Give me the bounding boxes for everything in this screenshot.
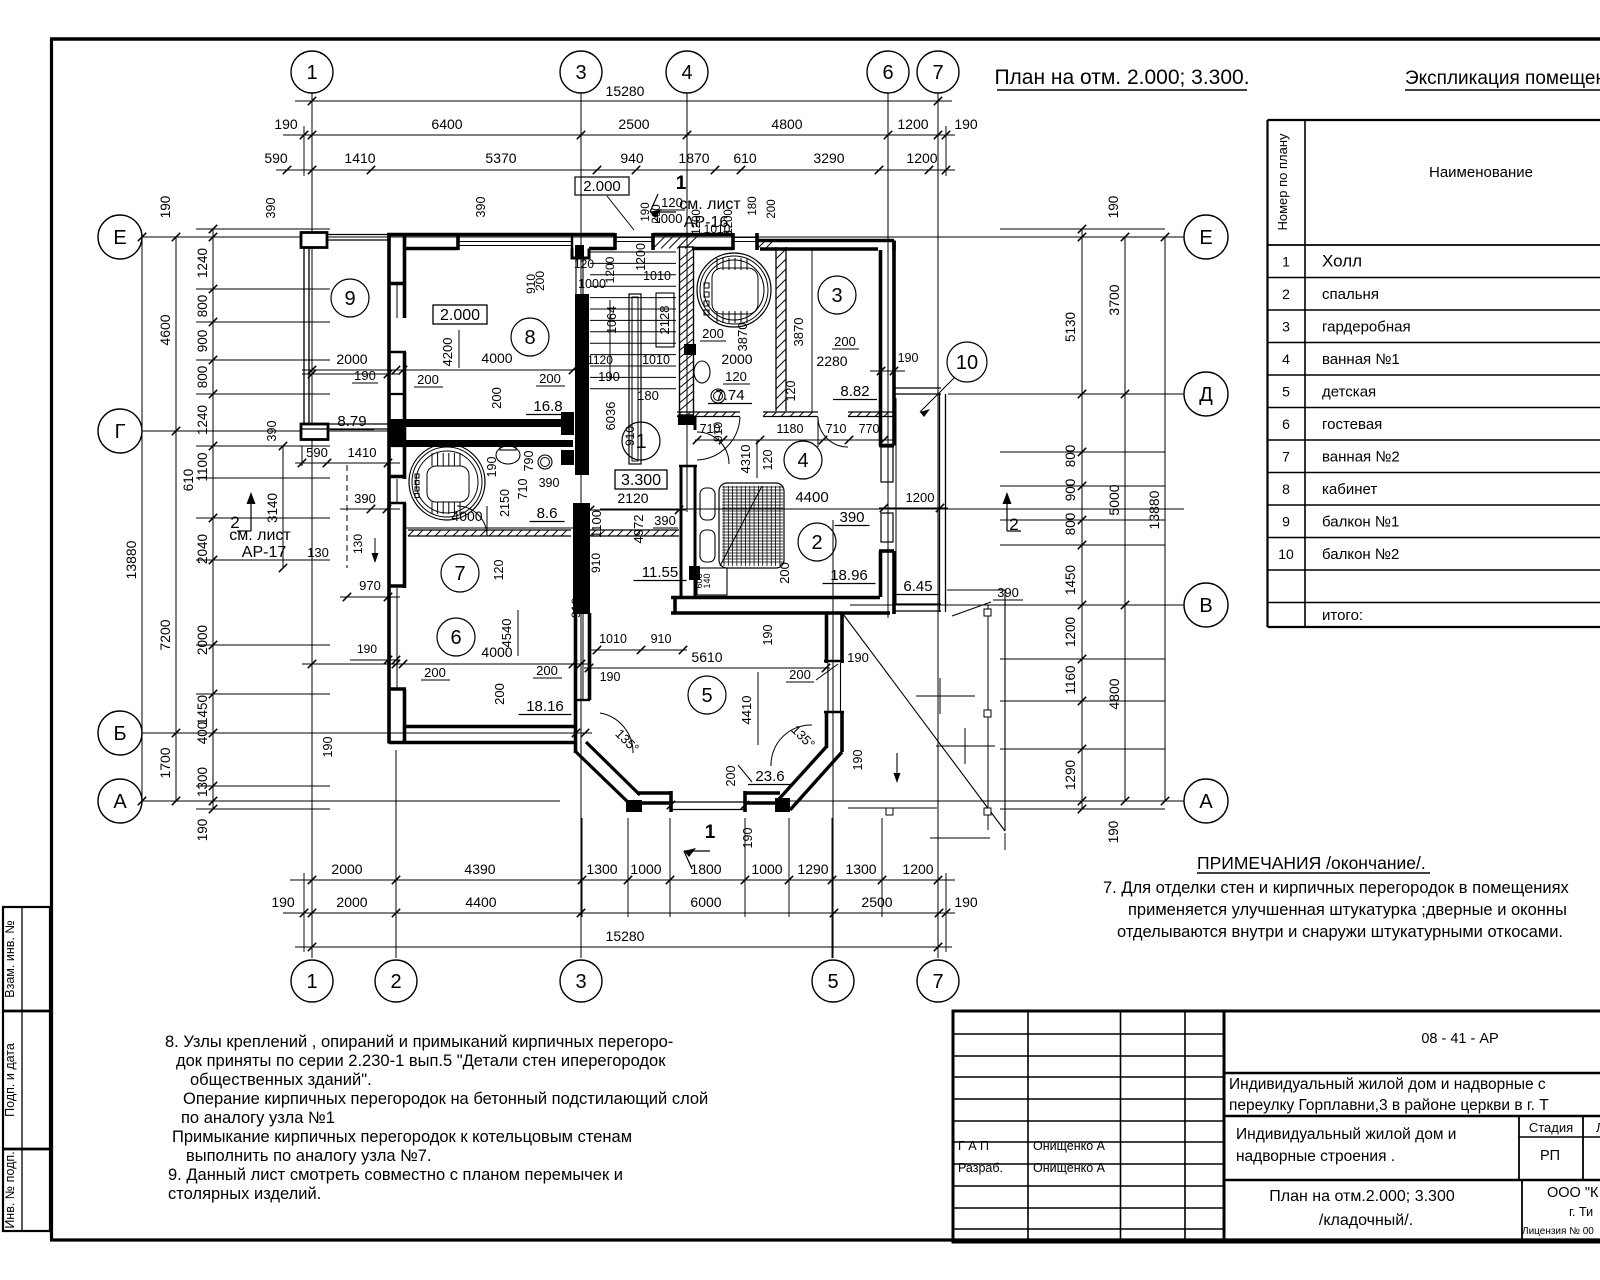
svg-text:РП: РП bbox=[1540, 1148, 1560, 1164]
dimension chain top detailed bbox=[276, 169, 955, 171]
pier blocks left of hall wall bbox=[561, 412, 574, 435]
wall right exterior inner line bbox=[879, 250, 883, 446]
svg-text:4400: 4400 bbox=[465, 894, 496, 910]
wall right exterior outer line bbox=[892, 241, 896, 446]
notes title ПРИМЕЧАНИЯ /окончание/. bbox=[1197, 853, 1430, 873]
window bay bottom bbox=[671, 801, 745, 803]
dimension chain left middle bbox=[175, 237, 177, 801]
svg-text:190: 190 bbox=[898, 351, 919, 365]
svg-text:8.6: 8.6 bbox=[537, 505, 558, 522]
svg-text:18.16: 18.16 bbox=[526, 698, 564, 715]
axis line 4 vertical bbox=[686, 93, 688, 512]
room circle 6 bbox=[437, 618, 475, 656]
dimension chain bottom detailed bbox=[290, 879, 955, 881]
svg-text:Л: Л bbox=[1596, 1120, 1600, 1135]
svg-text:710: 710 bbox=[516, 479, 530, 500]
toilet room 7 bbox=[496, 446, 520, 464]
svg-text:2000: 2000 bbox=[336, 351, 367, 367]
svg-text:15280: 15280 bbox=[606, 83, 645, 99]
svg-text:4000: 4000 bbox=[451, 508, 482, 524]
svg-text:190: 190 bbox=[485, 457, 499, 478]
svg-text:390: 390 bbox=[997, 585, 1019, 600]
svg-text:1100: 1100 bbox=[589, 510, 604, 538]
partition room 4 bottom hatched bbox=[677, 411, 740, 413]
terrace outline bbox=[947, 589, 1005, 591]
svg-text:1010: 1010 bbox=[599, 632, 627, 646]
svg-text:120: 120 bbox=[784, 381, 798, 402]
svg-text:1064: 1064 bbox=[605, 306, 619, 334]
svg-text:1: 1 bbox=[306, 971, 317, 993]
svg-text:Б: Б bbox=[113, 723, 126, 745]
axis line 3 vertical bbox=[580, 93, 582, 958]
svg-text:08 - 41 - АР: 08 - 41 - АР bbox=[1421, 1031, 1498, 1047]
level box 2.000 room 8 bbox=[433, 305, 487, 324]
svg-text:Д: Д bbox=[1199, 384, 1213, 406]
svg-text:18.96: 18.96 bbox=[830, 567, 868, 584]
room circle 4 bbox=[784, 441, 822, 479]
balcony 10 bottom wall bbox=[893, 603, 941, 605]
window top wall bath bbox=[733, 237, 757, 239]
svg-text:190: 190 bbox=[1106, 821, 1121, 844]
svg-text:3: 3 bbox=[575, 971, 586, 993]
svg-text:1300: 1300 bbox=[586, 861, 617, 877]
svg-text:2040: 2040 bbox=[195, 534, 210, 564]
bay extension lines to bottom chain bbox=[581, 818, 583, 917]
svg-text:130: 130 bbox=[351, 534, 365, 554]
svg-text:1300: 1300 bbox=[845, 861, 876, 877]
svg-text:Стадия: Стадия bbox=[1529, 1120, 1573, 1135]
svg-text:16.8: 16.8 bbox=[533, 398, 562, 415]
svg-text:770: 770 bbox=[859, 422, 880, 436]
table rows room list bbox=[1278, 252, 1410, 625]
svg-text:200: 200 bbox=[834, 334, 856, 349]
svg-text:1450: 1450 bbox=[1063, 565, 1078, 595]
round tub room 7 bbox=[409, 444, 485, 520]
svg-text:4410: 4410 bbox=[739, 696, 754, 725]
svg-text:790: 790 bbox=[522, 451, 536, 472]
axis circle Б left bbox=[98, 711, 142, 755]
note 7 text lines bbox=[1103, 879, 1570, 941]
svg-text:120: 120 bbox=[574, 257, 594, 271]
svg-text:Е: Е bbox=[1199, 227, 1212, 249]
svg-text:1450: 1450 bbox=[195, 695, 210, 725]
svg-text:3: 3 bbox=[831, 285, 842, 307]
svg-text:кабинет: кабинет bbox=[1322, 481, 1377, 498]
table title Экспликация помещений bbox=[1405, 68, 1600, 90]
wall bottom room 6 outer line bbox=[389, 741, 576, 745]
axis line 2 vertical bbox=[395, 750, 397, 958]
right extension lines bbox=[1000, 228, 1165, 230]
dimension chain right 13880 bbox=[1164, 237, 1166, 801]
svg-text:5000: 5000 bbox=[1106, 484, 1122, 515]
svg-text:390: 390 bbox=[839, 509, 864, 526]
wall stair right hatched bbox=[680, 247, 694, 415]
axis line 5 vertical bbox=[832, 520, 834, 958]
svg-text:5370: 5370 bbox=[485, 150, 516, 166]
dimension chain right inner bbox=[1081, 229, 1083, 809]
room circle 7 bbox=[441, 554, 479, 592]
svg-text:Холл: Холл bbox=[1322, 252, 1362, 271]
wall bay left corner to room6 bbox=[573, 588, 590, 614]
svg-text:900: 900 bbox=[1063, 479, 1078, 502]
svg-text:7: 7 bbox=[1282, 449, 1290, 465]
dimension row rooms 9-8 horizontal bbox=[302, 369, 589, 371]
svg-text:200: 200 bbox=[539, 371, 561, 386]
dimension 390 row7 bbox=[340, 508, 400, 510]
svg-text:1200: 1200 bbox=[906, 150, 937, 166]
wall bay left bbox=[574, 594, 578, 753]
svg-text:2000: 2000 bbox=[195, 625, 210, 655]
svg-text:1410: 1410 bbox=[344, 150, 375, 166]
svg-text:200: 200 bbox=[424, 665, 446, 680]
axis circle 6 top bbox=[867, 51, 909, 93]
axis circle 5 bottom bbox=[812, 960, 854, 1002]
wall left exterior outer line bbox=[387, 233, 391, 744]
svg-text:13880: 13880 bbox=[123, 540, 139, 579]
svg-text:2128: 2128 bbox=[657, 306, 672, 335]
svg-text:190: 190 bbox=[847, 650, 869, 665]
wall stair cap solid bbox=[678, 415, 694, 425]
balcony 10 right wall bbox=[939, 394, 941, 612]
svg-text:190: 190 bbox=[357, 642, 377, 656]
svg-text:гостевая: гостевая bbox=[1322, 416, 1382, 433]
svg-text:190: 190 bbox=[321, 737, 335, 758]
terrace posts line vertical bbox=[987, 605, 989, 830]
window right wall room 2 upper bbox=[881, 447, 893, 482]
svg-text:4000: 4000 bbox=[481, 350, 512, 366]
room circle 10 with leader bbox=[947, 342, 987, 382]
window sill marks bay bbox=[667, 801, 675, 809]
bed room 2 bbox=[719, 483, 784, 568]
svg-text:200: 200 bbox=[651, 204, 663, 223]
dimension chain right outer bbox=[1124, 237, 1126, 801]
svg-text:ПРИМЕЧАНИЯ /окончание/.: ПРИМЕЧАНИЯ /окончание/. bbox=[1197, 853, 1426, 873]
svg-text:1200: 1200 bbox=[897, 116, 928, 132]
wall right exterior lower corner bbox=[892, 551, 896, 614]
terrace down arrow bbox=[896, 753, 898, 780]
svg-text:7: 7 bbox=[932, 62, 943, 84]
sink room 7 bbox=[538, 455, 552, 469]
level box 3.300 hall bbox=[615, 470, 667, 489]
svg-text:7: 7 bbox=[932, 971, 943, 993]
svg-text:7. Для отделки стен и кирпичны: 7. Для отделки стен и кирпичных перегоро… bbox=[1103, 879, 1570, 897]
svg-text:ванная №1: ванная №1 bbox=[1322, 351, 1400, 368]
svg-text:Е: Е bbox=[113, 227, 126, 249]
svg-text:Разраб.: Разраб. bbox=[958, 1161, 1003, 1175]
svg-text:Индивидуальный жилой дом и: Индивидуальный жилой дом и bbox=[1236, 1126, 1456, 1143]
svg-text:190: 190 bbox=[761, 625, 775, 646]
level box 2128 stairs rotated bbox=[656, 293, 674, 347]
svg-text:3870: 3870 bbox=[791, 318, 806, 347]
svg-text:910: 910 bbox=[711, 422, 725, 442]
svg-text:23.6: 23.6 bbox=[755, 768, 784, 785]
svg-text:3290: 3290 bbox=[813, 150, 844, 166]
svg-text:Онищенко А: Онищенко А bbox=[1033, 1161, 1106, 1175]
wall interior hall left mid bbox=[575, 427, 589, 475]
svg-text:4: 4 bbox=[797, 450, 808, 472]
svg-text:1300: 1300 bbox=[195, 767, 210, 797]
axis circle 4 top bbox=[666, 51, 708, 93]
svg-text:190: 190 bbox=[954, 116, 978, 132]
room circle 9 bbox=[331, 279, 369, 317]
svg-text:180: 180 bbox=[637, 388, 659, 403]
svg-text:Лицензия № 00: Лицензия № 00 bbox=[1522, 1226, 1594, 1237]
room circle 2 bbox=[798, 523, 836, 561]
bedside table room 2 lower bbox=[700, 530, 715, 562]
partition room 7/6 hatched bbox=[408, 529, 571, 531]
svg-text:Подп. и дата: Подп. и дата bbox=[3, 1043, 17, 1117]
room circle 5 bbox=[688, 676, 726, 714]
svg-text:910: 910 bbox=[589, 553, 603, 573]
svg-text:910: 910 bbox=[651, 632, 672, 646]
svg-text:3140: 3140 bbox=[265, 493, 280, 523]
svg-text:Взам. инв. №: Взам. инв. № bbox=[3, 920, 17, 997]
window top wall stairs bbox=[615, 237, 653, 239]
svg-text:А: А bbox=[1199, 791, 1213, 813]
axis circle Д right bbox=[1184, 372, 1228, 416]
dimension row room 5 top bbox=[589, 649, 687, 651]
wall bay bottom right bbox=[745, 801, 790, 805]
svg-text:800: 800 bbox=[195, 366, 210, 389]
window top wall room 8 bbox=[458, 241, 572, 243]
dimension 970 bbox=[340, 596, 400, 598]
axis line 1 vertical bbox=[311, 93, 313, 958]
svg-text:5: 5 bbox=[827, 971, 838, 993]
svg-text:1000: 1000 bbox=[630, 861, 661, 877]
svg-text:140: 140 bbox=[702, 573, 712, 588]
svg-text:2500: 2500 bbox=[861, 894, 892, 910]
svg-text:1010: 1010 bbox=[704, 222, 731, 236]
jacuzzi tub room 4 bbox=[697, 253, 771, 327]
svg-text:2280: 2280 bbox=[816, 353, 847, 369]
top wall right step bbox=[892, 241, 896, 251]
wall bay bottom left bbox=[628, 801, 671, 805]
svg-text:3700: 3700 bbox=[1106, 284, 1122, 315]
svg-text:Инв. № подп.: Инв. № подп. bbox=[3, 1151, 17, 1228]
svg-text:190: 190 bbox=[598, 369, 620, 384]
svg-text:Индивидуальный жилой дом и на: Индивидуальный жилой дом и надворные с bbox=[1229, 1076, 1546, 1093]
hatched pier top wall bbox=[653, 235, 667, 249]
drawing title План на отм. 2.000; 3.300. bbox=[994, 66, 1249, 90]
svg-text:гардеробная: гардеробная bbox=[1322, 319, 1411, 336]
svg-text:5130: 5130 bbox=[1063, 312, 1078, 342]
svg-text:В: В bbox=[1199, 595, 1212, 617]
svg-text:180: 180 bbox=[747, 196, 759, 215]
svg-text:АР-17: АР-17 bbox=[242, 544, 287, 561]
axis circle Е right bbox=[1184, 215, 1228, 259]
svg-text:столярных изделий.: столярных изделий. bbox=[168, 1185, 321, 1203]
svg-text:13880: 13880 bbox=[1146, 490, 1162, 529]
svg-text:15280: 15280 bbox=[606, 928, 645, 944]
wall bottom room 6 inner line bbox=[406, 725, 575, 729]
svg-text:9. Данный лист смотреть совмес: 9. Данный лист смотреть совместно с план… bbox=[168, 1166, 623, 1184]
svg-text:Г А П: Г А П bbox=[958, 1139, 989, 1153]
svg-text:общественных зданий".: общественных зданий". bbox=[190, 1071, 372, 1089]
svg-text:200: 200 bbox=[417, 372, 439, 387]
svg-text:4: 4 bbox=[681, 62, 692, 84]
wall bay right lower bbox=[840, 712, 844, 752]
svg-text:190: 190 bbox=[600, 670, 621, 684]
svg-text:1100: 1100 bbox=[195, 452, 210, 481]
axis circle 3 bottom bbox=[560, 960, 602, 1002]
axis line Г horizontal bbox=[142, 430, 400, 432]
svg-text:4600: 4600 bbox=[157, 314, 173, 345]
bedside table room 2 upper bbox=[700, 488, 715, 520]
svg-text:1180: 1180 bbox=[777, 422, 804, 436]
svg-text:6.45: 6.45 bbox=[903, 578, 932, 595]
toilet room 4 bbox=[694, 361, 710, 383]
svg-text:балкон №2: балкон №2 bbox=[1322, 546, 1399, 563]
svg-text:1410: 1410 bbox=[348, 445, 377, 460]
dimension chain bottom overall 15280 bbox=[295, 946, 952, 948]
svg-text:2150: 2150 bbox=[498, 489, 512, 517]
svg-text:800: 800 bbox=[195, 295, 210, 318]
wall interior hall left upper bbox=[575, 245, 584, 258]
axis circle Г left bbox=[98, 409, 142, 453]
svg-text:6036: 6036 bbox=[603, 402, 618, 431]
svg-text:10: 10 bbox=[1278, 546, 1294, 562]
svg-text:940: 940 bbox=[620, 150, 644, 166]
svg-text:2.000: 2.000 bbox=[583, 178, 621, 195]
svg-text:спальня: спальня bbox=[1322, 286, 1379, 303]
level box 2.000 top bbox=[575, 177, 629, 195]
svg-text:1: 1 bbox=[1282, 254, 1290, 270]
svg-text:910: 910 bbox=[623, 426, 637, 446]
svg-text:8.79: 8.79 bbox=[337, 413, 366, 430]
svg-text:6: 6 bbox=[1282, 416, 1290, 432]
wall top exterior outer line bbox=[387, 233, 615, 237]
axis circle 7 bottom bbox=[917, 960, 959, 1002]
svg-text:5: 5 bbox=[701, 685, 712, 707]
dimension row room 6 bbox=[302, 663, 589, 665]
axis circle В right bbox=[1184, 583, 1228, 627]
right wall connector bbox=[887, 482, 889, 513]
svg-text:Наименование: Наименование bbox=[1429, 164, 1533, 181]
title block outer frame bbox=[953, 1011, 1600, 1242]
svg-text:2000: 2000 bbox=[336, 894, 367, 910]
svg-text:900: 900 bbox=[195, 330, 210, 353]
svg-text:ООО "К: ООО "К bbox=[1547, 1185, 1599, 1201]
balcony 9 left wall bbox=[303, 248, 305, 423]
svg-text:2: 2 bbox=[390, 971, 401, 993]
stair handrail bbox=[629, 294, 641, 464]
svg-text:6400: 6400 bbox=[431, 116, 462, 132]
svg-text:План на отм. 2.000; 3.300.: План на отм. 2.000; 3.300. bbox=[994, 66, 1249, 89]
left extension lines bbox=[196, 228, 330, 230]
room circle 3 bbox=[818, 276, 856, 314]
svg-text:А: А bbox=[113, 791, 127, 813]
svg-text:610: 610 bbox=[181, 469, 196, 492]
axis circle Е left bbox=[98, 215, 142, 259]
svg-text:590: 590 bbox=[306, 445, 328, 460]
svg-text:1800: 1800 bbox=[690, 861, 721, 877]
svg-text:1200: 1200 bbox=[902, 861, 933, 877]
wall interior hall left pier bbox=[573, 503, 590, 550]
axis circle 1 top bbox=[291, 51, 333, 93]
svg-text:1240: 1240 bbox=[195, 405, 210, 435]
svg-text:2000: 2000 bbox=[721, 351, 752, 367]
svg-text:надворные строения .: надворные строения . bbox=[1236, 1148, 1395, 1165]
left wall caps bbox=[388, 282, 406, 286]
svg-text:Примыкание кирпичных перегород: Примыкание кирпичных перегородок к котел… bbox=[172, 1128, 632, 1146]
svg-text:1200: 1200 bbox=[906, 490, 935, 505]
svg-text:1: 1 bbox=[676, 173, 687, 194]
door arc hall to room 2 bbox=[697, 432, 729, 464]
axis line Д horizontal bbox=[948, 393, 1184, 395]
stair treads bbox=[590, 252, 676, 389]
svg-text:4540: 4540 bbox=[499, 619, 514, 648]
svg-text:7.74: 7.74 bbox=[715, 387, 744, 404]
svg-text:Экспликация помещени: Экспликация помещени bbox=[1405, 68, 1600, 89]
wall bay lower-left diagonal bbox=[575, 751, 631, 805]
dimension row 590 1410 bbox=[295, 462, 400, 464]
svg-text:200: 200 bbox=[489, 387, 504, 409]
svg-text:2: 2 bbox=[1282, 286, 1290, 302]
door arc room 7 partition bbox=[457, 506, 487, 536]
partition bath/wardrobe hatched vertical bbox=[775, 247, 777, 411]
svg-text:ванная №2: ванная №2 bbox=[1322, 449, 1400, 466]
wall junction block left bbox=[388, 419, 406, 447]
svg-text:11.55: 11.55 bbox=[642, 564, 678, 581]
svg-text:переулку Горплавни,3 в районе: переулку Горплавни,3 в районе церкви в г… bbox=[1229, 1097, 1549, 1114]
svg-text:9: 9 bbox=[344, 288, 355, 310]
svg-text:200: 200 bbox=[724, 766, 738, 787]
svg-text:10: 10 bbox=[956, 352, 978, 374]
svg-text:1120: 1120 bbox=[587, 353, 613, 367]
wall bay right vertical bbox=[840, 613, 844, 663]
svg-text:2.000: 2.000 bbox=[440, 307, 480, 324]
svg-text:190: 190 bbox=[274, 116, 298, 132]
svg-text:2: 2 bbox=[230, 513, 239, 532]
svg-text:200: 200 bbox=[789, 667, 811, 682]
svg-text:200: 200 bbox=[533, 271, 547, 291]
svg-text:120: 120 bbox=[661, 195, 683, 210]
svg-text:8: 8 bbox=[524, 327, 535, 349]
svg-text:1240: 1240 bbox=[195, 248, 210, 278]
notes text block items 8 and 9 bbox=[165, 1033, 708, 1203]
svg-text:200: 200 bbox=[492, 683, 507, 705]
svg-text:4310: 4310 bbox=[738, 445, 753, 474]
axis circle А left bbox=[98, 779, 142, 823]
svg-text:390: 390 bbox=[474, 197, 488, 218]
svg-text:Операние кирпичных перегородок: Операние кирпичных перегородок на бетонн… bbox=[183, 1090, 708, 1108]
axis line А horizontal bbox=[142, 800, 560, 802]
svg-text:390: 390 bbox=[539, 476, 560, 490]
door arc room 3 bbox=[818, 417, 848, 447]
balcony 9 pier bottom-left bbox=[300, 423, 329, 440]
svg-text:7200: 7200 bbox=[157, 619, 173, 650]
svg-text:4200: 4200 bbox=[440, 338, 455, 367]
svg-text:отделываются внутри и снаружи: отделываются внутри и снаружи штукатурны… bbox=[1117, 923, 1563, 941]
svg-text:1200: 1200 bbox=[691, 209, 703, 235]
svg-text:2120: 2120 bbox=[617, 490, 648, 506]
svg-text:190: 190 bbox=[271, 894, 295, 910]
explication table grid bbox=[1268, 120, 1600, 627]
svg-text:1290: 1290 bbox=[1063, 760, 1078, 790]
dimension chain left outer 13880 bbox=[141, 237, 143, 801]
left wall window center lines bbox=[396, 285, 398, 318]
svg-text:800: 800 bbox=[1063, 445, 1078, 468]
axis line 6 vertical bbox=[887, 93, 889, 618]
closet room 2 bottom bbox=[697, 568, 727, 595]
svg-text:8.82: 8.82 bbox=[840, 383, 869, 400]
wall room 2 left outlined bbox=[680, 466, 683, 596]
axis line 7 vertical bbox=[937, 93, 939, 958]
jacuzzi side squares bbox=[704, 283, 709, 288]
svg-text:3870: 3870 bbox=[735, 323, 750, 352]
svg-text:200: 200 bbox=[702, 326, 724, 341]
door arc room 4 to hall bbox=[697, 417, 740, 460]
